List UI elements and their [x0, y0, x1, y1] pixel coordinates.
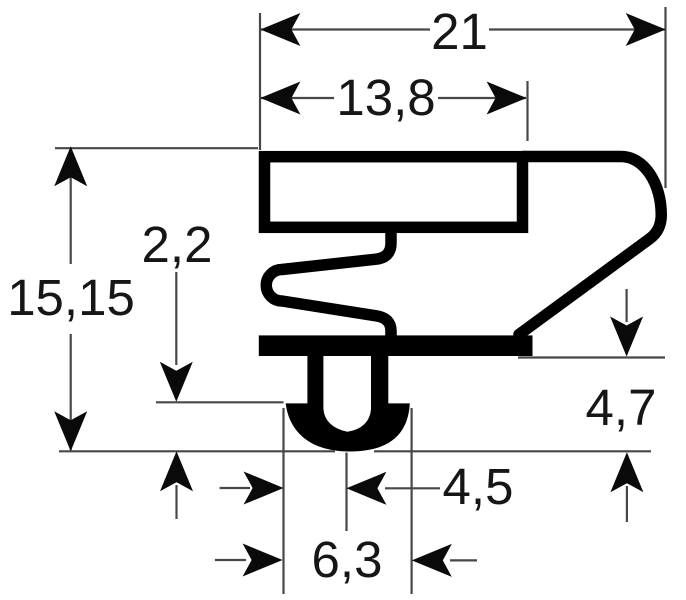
svg-text:15,15: 15,15	[7, 269, 135, 326]
boundary line of 2,2 at barb wing level	[156, 401, 284, 403]
arrow left end of 21	[260, 13, 300, 46]
extension line left of 4,5 / 6,3	[282, 408, 284, 594]
dimension line 4,5 left stub	[220, 487, 250, 489]
gasket top lip and right bulb with diagonal flank	[519, 157, 661, 335]
arrow bottom end of 15,15	[54, 411, 87, 451]
extension line right of 21	[664, 7, 666, 188]
extension line left (21 / 13,8)	[259, 13, 261, 150]
dimension line 6,3 right segment	[450, 559, 477, 561]
svg-text:6,3: 6,3	[312, 531, 383, 588]
gasket mounting bar	[259, 335, 533, 356]
dimension line 15,15	[70, 148, 72, 264]
dimension line 4,5 right segment	[385, 487, 440, 489]
arrow of 4,5 pointing left at center line	[346, 472, 386, 505]
gasket chamber rectangle (hollow profile section)	[265, 157, 523, 228]
bottom reference line left segment	[59, 450, 335, 452]
arrow lower of 2,2 pointing up	[160, 451, 193, 491]
extension line right of 13,8	[526, 81, 528, 141]
arrow left end of 13,8	[260, 82, 300, 115]
dimension line 4,7 lower tail	[626, 486, 628, 522]
boundary line top of 4,7	[518, 356, 665, 358]
arrow lower of 4,7 pointing up	[610, 452, 643, 492]
extension line right of 6,3	[411, 408, 413, 594]
arrow of 4,5 pointing right at left boundary	[244, 472, 284, 505]
dimension line 21	[261, 28, 430, 30]
svg-text:4,7: 4,7	[586, 379, 657, 436]
extension line top of 15,15	[55, 147, 258, 149]
svg-text:2,2: 2,2	[142, 216, 213, 273]
dimension line 4,7 upper tail	[625, 289, 627, 322]
arrow upper of 4,7 pointing down	[610, 317, 643, 357]
dimension line 6,3 left stub	[215, 559, 246, 561]
dimension line 2,2 upper tail	[175, 272, 177, 365]
svg-text:4,5: 4,5	[443, 458, 514, 515]
arrow right end of 21	[626, 13, 666, 46]
push-in spigot with barb wings and bowl foot	[286, 350, 410, 452]
arrow of 6,3 pointing left at right boundary	[412, 544, 452, 577]
gasket bellows (accordion membrane)	[266, 228, 391, 345]
extension line center of spigot (4,5 right boundary)	[345, 453, 347, 532]
arrow upper of 2,2 pointing down	[160, 362, 193, 402]
dimension line 13,8	[261, 97, 334, 99]
svg-text:13,8: 13,8	[336, 69, 435, 126]
arrow right end of 13,8	[487, 82, 527, 115]
dimension line 2,2 lower tail	[175, 485, 177, 519]
arrow top end of 15,15	[54, 146, 87, 186]
bottom reference line right segment	[374, 450, 651, 452]
svg-text:21: 21	[431, 3, 488, 60]
arrow of 6,3 pointing right at left boundary	[243, 544, 283, 577]
